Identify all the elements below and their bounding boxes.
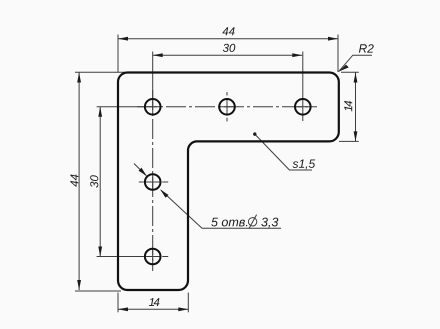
text R2 — [359, 44, 374, 52]
arrow 30 top right — [292, 53, 302, 57]
leader 5 holes upper segment — [134, 164, 146, 176]
diameter symbol — [248, 215, 256, 229]
centerline vertical left leg — [152, 90, 154, 271]
arrow R2 — [338, 64, 349, 71]
hole 5 left bottom — [145, 249, 161, 265]
extension line right-14 bottom — [339, 140, 359, 142]
arrow 14 right bottom — [354, 131, 358, 141]
hole 2 top middle — [219, 99, 235, 115]
dimension line 14 right — [355, 73, 357, 142]
arrow 14 bottom right — [178, 307, 188, 311]
arrow 44 top right — [328, 37, 338, 41]
dimension line 30 left — [99, 107, 101, 257]
leader R2 — [339, 55, 372, 71]
extension line left-44 top — [75, 71, 135, 73]
arrow 30 top left — [153, 53, 163, 57]
extension line bottom-14 left — [117, 293, 119, 313]
extension line top-44 left — [117, 35, 119, 73]
extension line top-30 left — [152, 52, 154, 99]
centerline solid crossing hole 3 — [294, 98, 311, 121]
hole 1 corner — [145, 99, 161, 115]
hole 4 left middle — [145, 174, 161, 190]
leader dot s1,5 — [253, 132, 256, 135]
arrow 44 left top — [77, 73, 81, 83]
extension line top-30 right — [302, 52, 304, 99]
text 14 right — [344, 101, 352, 112]
leader s1,5 — [255, 134, 312, 170]
arrow 14 bottom left — [118, 307, 128, 311]
arrow 44 left bottom — [77, 280, 81, 290]
text 30 top — [223, 44, 235, 52]
extension line left-30 bottom — [97, 256, 145, 258]
leader 5 holes lower segment — [161, 190, 281, 228]
extension line left-30 top — [97, 106, 145, 108]
dimension line 44 left — [78, 73, 80, 291]
arrow 5-holes lower — [160, 189, 168, 198]
text 30 left — [90, 175, 98, 187]
arrow 30 left bottom — [98, 247, 102, 257]
text 44 left — [70, 174, 78, 186]
text 5 otv. — [211, 218, 247, 227]
extension line left-44 bottom — [75, 290, 121, 292]
centerline solid crossing hole 5 — [139, 248, 168, 265]
extension line bottom-14 right — [187, 293, 189, 313]
arrow 30 left top — [98, 107, 102, 117]
text s1,5 — [293, 160, 316, 170]
arrow 5-holes upper — [139, 168, 147, 177]
centerline solid crossing hole 2 — [219, 92, 236, 122]
outline of L-plate — [118, 73, 339, 291]
dimension line 14 bottom — [118, 308, 188, 310]
text 44 top — [222, 27, 234, 35]
dimension line 44 top — [118, 38, 338, 40]
hole 3 top right — [295, 99, 311, 115]
centerline horizontal top leg — [137, 106, 317, 108]
centerline solid crossing hole 4 — [139, 174, 168, 191]
text 3,3 — [261, 218, 278, 228]
extension line top-44 right — [337, 35, 339, 73]
text 14 bottom — [149, 298, 160, 306]
centerline solid crossing hole 1 — [144, 98, 161, 115]
arrow 14 right top — [354, 73, 358, 83]
arrow 44 top left — [118, 37, 128, 41]
dimension line 30 top — [153, 54, 303, 56]
extension line right-14 top — [341, 71, 359, 73]
